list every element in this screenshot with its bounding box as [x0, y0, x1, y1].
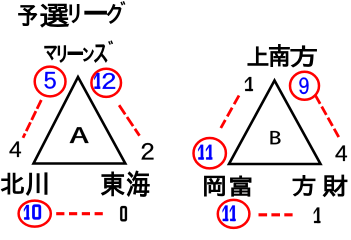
dashed line circle12 to score 2 [119, 105, 139, 136]
score 5 (blue) [45, 72, 56, 89]
score circle 9 (上南方 vs 方財) [290, 72, 319, 100]
score 4 (方財 vs 上南方) [336, 146, 348, 162]
score 11 (blue) [198, 145, 212, 160]
team name 方財 (group B bottom-right) [293, 175, 347, 197]
team name 北川 (group A bottom-left) [1, 173, 47, 195]
triangle B [229, 81, 321, 165]
dashed line circle10 to score 0 [56, 212, 103, 215]
group label A [70, 127, 89, 143]
score 12 (blue) [94, 73, 115, 89]
score 1 (方財 vs 岡富) [314, 208, 321, 224]
score 1 (上南方 vs 岡富) [245, 77, 253, 91]
dakuten mark on ズ [109, 41, 113, 45]
dashed line circle9 to score 4 [316, 96, 340, 138]
score 4 (北川 vs マリーンズ) [10, 142, 22, 158]
score circle 10 (北川 vs 東海) [19, 201, 51, 227]
team name 上南方 (group B top) [248, 44, 317, 67]
score 10 (blue) [24, 205, 41, 220]
score circle 11 left (岡富 vs 上南方) [194, 138, 226, 168]
team name 岡富 (group B bottom-left) [205, 176, 252, 196]
title 予選リーグ [19, 4, 121, 27]
team name 東海 (group A bottom-right) [102, 171, 150, 196]
dashed line circle5 to score 4 [23, 100, 41, 138]
dashed line circle11 to score 1 (bottom) [259, 213, 293, 216]
title dakuten mark on グ [121, 1, 125, 5]
score 9 (blue) [299, 78, 308, 95]
triangle A [34, 77, 126, 164]
score circle 11 bottom (岡富 vs 方財) [218, 200, 250, 228]
score 2 (東海 vs マリーンズ) [142, 143, 154, 160]
dashed line circle11 to score 1 [221, 96, 239, 129]
score circle 5 (マリーンズ vs 北川) [35, 67, 66, 97]
score 11 (blue) [223, 206, 236, 222]
score circle 12 (マリーンズ vs 東海) [91, 69, 121, 97]
group label B [271, 131, 281, 144]
team name マリーンズ (group A top) [45, 45, 107, 63]
score 0 (東海 vs 北川) [120, 206, 127, 221]
